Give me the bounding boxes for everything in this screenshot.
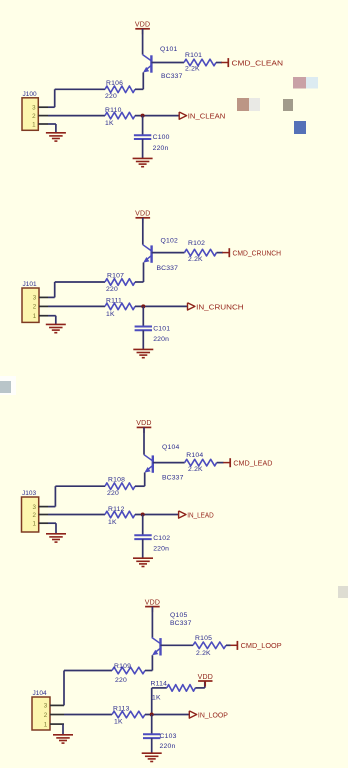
svg-text:R105: R105 [195,635,212,642]
svg-text:R102: R102 [188,240,205,247]
svg-text:Q105: Q105 [170,612,187,619]
svg-text:3: 3 [33,295,37,302]
svg-text:1: 1 [44,721,48,728]
svg-text:R114: R114 [151,680,168,687]
svg-text:220: 220 [106,286,118,293]
svg-text:R106: R106 [106,80,123,87]
svg-text:Q102: Q102 [161,237,178,244]
svg-text:1K: 1K [114,719,123,726]
svg-text:CMD_LOOP: CMD_LOOP [241,641,282,650]
svg-text:3: 3 [44,703,48,710]
svg-text:J100: J100 [23,91,37,98]
svg-text:R109: R109 [114,663,131,670]
svg-text:3: 3 [32,105,36,112]
svg-text:1: 1 [33,313,37,320]
svg-text:J104: J104 [33,690,47,697]
svg-text:R112: R112 [108,506,125,513]
svg-text:R111: R111 [106,298,122,305]
svg-text:CMD_LEAD: CMD_LEAD [233,459,272,468]
svg-text:1K: 1K [105,120,114,127]
svg-text:VDD: VDD [135,211,150,218]
svg-text:IN_CLEAN: IN_CLEAN [188,112,226,121]
svg-text:C103: C103 [160,733,177,740]
svg-text:IN_CRUNCH: IN_CRUNCH [196,302,244,311]
svg-text:BC337: BC337 [170,620,192,627]
svg-text:IN_LOOP: IN_LOOP [198,710,228,719]
svg-text:CMD_CRUNCH: CMD_CRUNCH [233,249,282,258]
svg-text:CMD_CLEAN: CMD_CLEAN [232,58,284,67]
svg-text:R110: R110 [105,107,122,114]
svg-text:1: 1 [32,121,36,128]
svg-text:1K: 1K [108,519,117,526]
svg-text:J101: J101 [23,281,37,288]
svg-text:J103: J103 [22,490,36,497]
svg-text:2: 2 [32,512,36,519]
svg-text:220: 220 [107,490,119,497]
svg-text:1K: 1K [152,694,161,701]
svg-text:VDD: VDD [198,674,213,681]
svg-text:1: 1 [32,521,36,528]
svg-text:2.2K: 2.2K [188,466,203,473]
svg-text:R108: R108 [108,476,125,483]
svg-text:2.2K: 2.2K [188,256,203,263]
svg-text:2: 2 [33,304,37,311]
svg-text:220n: 220n [160,743,176,750]
svg-text:Q101: Q101 [160,46,177,53]
svg-text:VDD: VDD [145,599,160,606]
svg-text:1K: 1K [106,311,115,318]
svg-text:220: 220 [105,93,117,100]
svg-text:R101: R101 [185,52,202,59]
svg-text:2: 2 [32,113,36,120]
svg-text:VDD: VDD [136,420,151,427]
svg-text:C100: C100 [153,134,170,141]
svg-text:220n: 220n [153,545,169,552]
svg-text:VDD: VDD [135,22,150,29]
svg-text:220n: 220n [153,336,169,343]
svg-text:2: 2 [44,712,48,719]
svg-text:3: 3 [32,504,36,511]
svg-text:C101: C101 [153,326,170,333]
svg-text:BC337: BC337 [161,73,183,80]
svg-text:BC337: BC337 [162,475,184,482]
svg-text:2.2K: 2.2K [196,650,211,657]
svg-text:BC337: BC337 [157,265,179,272]
svg-text:220: 220 [115,677,127,684]
svg-text:IN_LEAD: IN_LEAD [187,510,214,519]
svg-text:R104: R104 [186,452,203,459]
svg-text:R107: R107 [107,273,124,280]
svg-text:2.2K: 2.2K [185,66,200,73]
svg-text:220n: 220n [153,145,169,152]
svg-text:C102: C102 [153,535,170,542]
svg-text:R113: R113 [113,705,130,712]
svg-text:Q104: Q104 [162,444,179,451]
